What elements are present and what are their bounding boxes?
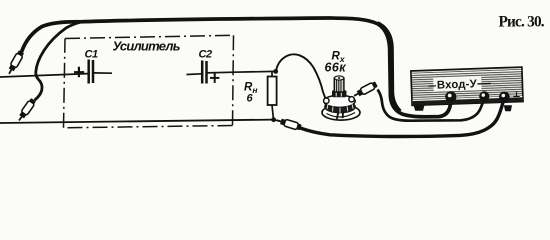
- pot center lugs below: [337, 111, 339, 119]
- plug P2 (lower left): [16, 98, 36, 123]
- amplifier box (dash-dot enclosure): [64, 35, 234, 128]
- wire: C2 output through box edge to node: [207, 71, 275, 73]
- panel foot left: [414, 105, 425, 111]
- cable: second conductor alongside right vertical drop: [378, 23, 401, 111]
- node: junction at resistor bottom: [271, 117, 276, 122]
- wire: input line from left edge to C1: [0, 74, 88, 77]
- wire: arc from resistor node to potentiometer left lug: [276, 54, 326, 98]
- panel foot right: [504, 105, 512, 111]
- pot side band ticks: [327, 104, 353, 113]
- node: junction at resistor top: [273, 69, 278, 74]
- wire: resistor top lead: [271, 72, 273, 77]
- svg-text:66к: 66к: [325, 61, 347, 75]
- plug P1 (upper left): [6, 50, 25, 75]
- wire: resistor bottom lead: [272, 105, 274, 120]
- binding post T2: [479, 91, 489, 101]
- pot body top: [324, 95, 355, 107]
- cable from plug P3 along bottom to terminal T3: [299, 100, 504, 137]
- capacitor C1: [74, 60, 112, 84]
- svg-text:Усилитель: Усилитель: [113, 39, 180, 54]
- plug P3: [276, 117, 302, 131]
- oscilloscope panel Вход-У: [411, 67, 523, 105]
- heavy cable: upper-left plug, along top, down right side, to terminal T1: [22, 18, 452, 117]
- heavy cable from lower-left plug over the top (merges with main run): [35, 22, 81, 100]
- potentiometer Rx: [322, 76, 360, 120]
- pot left solder lug: [324, 98, 329, 103]
- svg-text:C2: C2: [199, 49, 213, 61]
- plug P4 (at potentiometer): [352, 81, 378, 99]
- cable from plug P4 to terminal T2: [378, 90, 485, 121]
- pot right solder lug: [349, 97, 354, 102]
- wire: bottom line from left edge to resistor junction: [0, 120, 274, 123]
- resistor Rн: [268, 77, 277, 106]
- pot flange inner shadow: [327, 113, 356, 118]
- svg-text:6: 6: [247, 93, 254, 105]
- pot shaft (knurled): [334, 78, 344, 92]
- binding post T1: [445, 91, 456, 102]
- pot body side band: [324, 100, 356, 113]
- pot bushing nut: [332, 90, 347, 97]
- pot base flange: [322, 105, 360, 120]
- plug P3 (at resistor junction) tip lead: [275, 120, 282, 122]
- label plate Вход-У: [433, 76, 481, 92]
- svg-text:C1: C1: [85, 49, 99, 61]
- svg-text:Вход-У: Вход-У: [437, 78, 478, 91]
- binding post T3: [499, 92, 510, 103]
- pot shaft top: [334, 76, 343, 80]
- capacitor C2: [187, 61, 220, 84]
- svg-text:Рис. 30.: Рис. 30.: [499, 13, 545, 30]
- ground symbol: [513, 92, 519, 99]
